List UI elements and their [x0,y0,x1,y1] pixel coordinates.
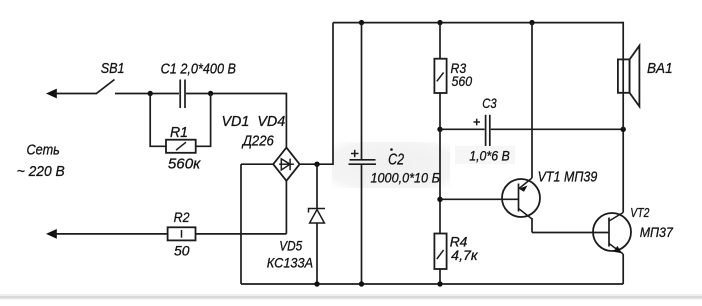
zener diode VD5 [309,164,326,284]
capacitor C3 [486,115,490,146]
svg-text:КС133А: КС133А [267,254,313,270]
wire top rail right to speaker [622,22,624,130]
node junction C1 right [208,91,213,96]
node junction speaker / C3 right [621,127,626,132]
wire VT1 emitter to rail [531,23,533,178]
svg-text:~ 220 В: ~ 220 В [17,163,65,180]
wire switch to C1 [115,93,179,95]
wire top supply rail [333,22,623,24]
svg-text:Сеть: Сеть [27,142,60,159]
svg-text:C3: C3 [482,95,497,111]
switch SB1 blade [96,80,115,94]
svg-text:1000,0*10 Б: 1000,0*10 Б [371,170,440,186]
wire bridge left to bottom rail [241,164,273,284]
svg-text:560: 560 [452,73,473,89]
svg-text:4,7к: 4,7к [451,247,479,263]
svg-text:SB1: SB1 [101,60,125,77]
wire VT1 base [440,198,519,200]
wire bridge right to top rail [300,23,333,165]
node junction C2 top [359,20,364,25]
svg-text:С2: С2 [388,152,404,169]
wire R3 to R4 (node A) [439,129,441,233]
node junction R4 bottom [437,281,442,286]
svg-text:C1 2,0*400 В: C1 2,0*400 В [161,61,236,78]
svg-text:BA1: BA1 [647,60,673,77]
wire VT1 collector to VT2 base [532,218,609,233]
svg-text:VD5: VD5 [279,237,302,253]
capacitor C2 electrolytic [349,23,377,284]
transistor VT2 [593,213,631,255]
svg-text:VT2: VT2 [630,205,650,220]
node junction VT1 emitter top [529,20,534,25]
resistor R1 [150,94,210,153]
wire C3 right [491,128,623,130]
node junction C3 left [437,127,442,132]
wire R2 to bridge bottom [196,180,287,234]
wire mains bottom lead with arrow [46,229,168,239]
label C2 plus [351,150,359,157]
wire VT2 collector up [622,129,624,212]
resistor R4 [434,234,446,285]
wire mains top lead with arrow [46,89,97,99]
node junction C2 bottom [359,281,364,286]
node junction zener top [314,162,319,167]
wire VT2 emitter to bottom rail [622,254,624,284]
wire C3 left [440,128,485,130]
svg-text:VT1 МП39: VT1 МП39 [538,169,598,186]
svg-text:560к: 560к [168,156,201,173]
svg-text:R2: R2 [174,209,190,225]
capacitor C1 [180,80,185,109]
wire C1 to bridge top [186,93,286,149]
svg-text:1,0*6 В: 1,0*6 В [469,147,510,163]
resistor R2 [168,227,196,240]
label C2 [388,148,404,168]
node junction C1 left [148,91,153,96]
node junction VT1 base [437,197,442,202]
wire bottom supply rail [241,283,623,285]
resistor R3 [434,23,446,130]
transistor VT1 [502,178,540,219]
speaker BA1 [618,46,640,107]
diode bridge VD1-VD4 [273,148,299,181]
svg-text:Д226: Д226 [241,132,274,149]
node junction R3 top [437,20,442,25]
svg-text:50: 50 [174,242,190,258]
svg-text:МП37: МП37 [640,224,674,240]
svg-text:R1: R1 [170,124,188,141]
svg-text:VD1 VD4: VD1 VD4 [222,113,286,130]
node junction zener bottom [314,281,319,286]
label C3 plus [474,119,481,126]
